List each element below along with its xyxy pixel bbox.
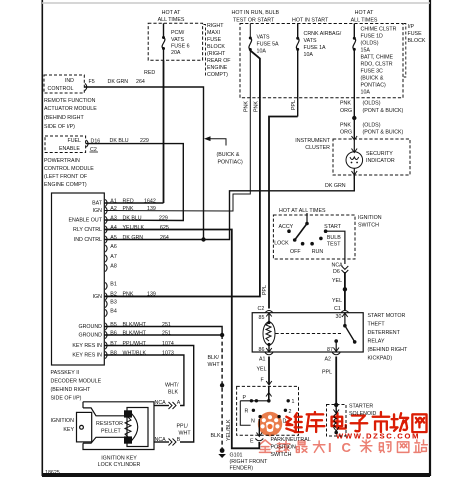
ignition key lock cylinder housing: [83, 402, 154, 450]
pin arc D16: [86, 140, 88, 147]
connector NCA A symbol: [169, 402, 177, 409]
wire B6 BLK/WHT: [104, 334, 222, 336]
fuse CHIME CLSTR FUSE 1D symbol: [353, 24, 356, 140]
header HOT IN RUN, BULB TEST OR START: [232, 10, 378, 24]
connector NCA D6: [332, 263, 344, 276]
node N: [258, 415, 261, 418]
svg-text:C: C: [342, 440, 352, 455]
label park/neutral position switch: [226, 419, 311, 458]
pin A3 arc: [105, 216, 107, 223]
label instrument cluster: [295, 138, 330, 151]
border frame right: [429, 0, 431, 476]
pin B3 arc: [105, 300, 107, 307]
pin A6 arc: [105, 245, 107, 252]
wire B5 BLK/WHT: [104, 327, 222, 336]
node DK GRN junction at A5: [201, 237, 205, 241]
wire A4 YEL/BLK to park/neutral E: [104, 230, 259, 449]
node OFF: [301, 242, 305, 246]
node START: [324, 229, 328, 233]
wire DK GRN 264 from IND CONTROL: [84, 87, 203, 240]
watermark weiku big characters (vector): [286, 413, 303, 432]
node ACCY: [287, 229, 291, 233]
switch S1 ignition switch dashed box: [273, 215, 355, 259]
fuse VATS FUSE 5A symbol: [249, 24, 260, 99]
node splice PNK/ORG: [352, 116, 356, 120]
pin B7 arc: [105, 342, 107, 349]
fuse PCM/VATS FUSE 6 dashed box: [148, 23, 202, 60]
pin B5 arc: [105, 323, 107, 330]
bracket right maxi fuse block: [204, 25, 206, 76]
connector box IND CONTROL: [44, 75, 84, 93]
svg-text:I: I: [328, 440, 332, 455]
wire fuse1 jog to B2 feed: [250, 51, 260, 99]
wire F into switch: [268, 386, 270, 400]
relay mechanical link dashed: [276, 333, 342, 335]
contact row P: [240, 400, 268, 402]
ground G101: [220, 448, 225, 453]
pin A1 arc: [105, 199, 107, 206]
wire stub into ignition switch: [306, 213, 308, 224]
watermark slogan characters (vector): [259, 440, 270, 452]
wire PNK fuse1 thick to B2: [104, 98, 260, 296]
wire key terminal B: [154, 441, 169, 443]
node 1: [287, 399, 290, 402]
border frame left: [41, 0, 43, 476]
pin A5 arc: [105, 236, 107, 243]
module U1 PASSKEY II decoder box: [52, 193, 105, 365]
pin B1 arc: [105, 282, 107, 289]
instrument cluster dashed box: [333, 139, 410, 175]
wire RED from fuse to A1: [163, 60, 165, 203]
relay coil: [263, 313, 275, 352]
bracket I/P fuse block: [404, 24, 406, 78]
wire DK BLU fuel enable to A3: [86, 144, 184, 221]
connector arc A2: [332, 353, 340, 355]
watermark weiku big characters (vector): [286, 413, 303, 432]
fuse CRNK AIRBAG/VATS FUSE 1A symbol: [296, 24, 299, 117]
node F junction: [267, 399, 271, 403]
starter solenoid dashed box: [327, 405, 347, 437]
pin B2 arc: [105, 293, 107, 300]
pin A4 arc: [105, 226, 107, 233]
node BULB TEST: [319, 237, 323, 241]
rotated labels under I/P fuse block: [244, 100, 298, 112]
node 2: [284, 409, 287, 412]
wire YEL relay 86/A1 to F: [268, 357, 270, 385]
ignition key head: [77, 412, 92, 442]
connector arc A1: [265, 353, 273, 355]
relay contact armature: [333, 313, 356, 352]
border frame bottom bar: [42, 473, 430, 477]
I/P fuse block dashed box: [240, 24, 403, 98]
border frame top gray: [42, 2, 430, 4]
fuse F PCM/VATS symbol: [162, 23, 165, 60]
switch lever: [295, 224, 307, 241]
label PNK ORG group2: [340, 123, 404, 136]
connector NCA B symbol: [169, 439, 177, 446]
node D: [277, 415, 280, 418]
lamp security indicator: [346, 140, 363, 179]
wire B7 PPL/WHT to key B: [104, 346, 193, 443]
label PNK ORG (OLDS)/(PONT & BUICK) group1: [340, 101, 404, 115]
node B5/B6 junction: [220, 333, 224, 337]
watermark weiku logo: [257, 411, 283, 437]
marker (BUICK & PONTIAC) arrow: [208, 139, 226, 146]
wire PNK fuse1 to A2: [104, 98, 250, 211]
resistor pellet R: [125, 411, 138, 443]
pin A7 arc: [105, 255, 107, 262]
node starter solenoid junction: [334, 403, 338, 407]
wire YEL to relay C1: [344, 272, 346, 310]
pin arc F5: [85, 83, 87, 90]
node splice YEL: [343, 287, 347, 291]
connector arrow into park/neutral F: [266, 381, 272, 385]
wire DK GRN cluster to A5: [104, 175, 354, 240]
pin B8 arc: [105, 351, 107, 358]
wire E pole: [258, 419, 260, 436]
wire BLK/WHT dashed to ground: [221, 335, 223, 449]
wire PPL relay 87/A2 to starter solenoid: [335, 357, 337, 405]
wire key terminal A: [154, 405, 169, 407]
svg-text:WWW.DZSC.COM: WWW.DZSC.COM: [336, 432, 420, 441]
solenoid coil: [333, 405, 339, 434]
connector arc C2: [265, 310, 273, 312]
wire A1 RED row: [104, 202, 163, 204]
inner bracket: [240, 401, 250, 426]
pin B4 arc: [105, 309, 107, 316]
node splice on dashed ground wire: [220, 383, 224, 387]
connector arrow into cluster: [352, 136, 358, 140]
connector box FUEL ENABLE: [45, 136, 86, 153]
switch S2 park/neutral position switch dashed box: [237, 386, 299, 435]
node RUN: [310, 242, 314, 246]
pin A8 arc: [105, 264, 107, 271]
node R: [252, 409, 255, 412]
watermark slogan characters (vector): [259, 440, 270, 452]
connector arc C1: [341, 310, 349, 312]
relay K1 start motor theft deterrent relay box: [252, 313, 363, 352]
wire B8 WHT/BLK to key A: [104, 355, 183, 406]
wire START output to C1: [326, 231, 345, 264]
pin A2 arc: [105, 207, 107, 214]
wire PPL fuse2 to relay C2: [269, 117, 298, 309]
pin B6 arc: [105, 331, 107, 338]
